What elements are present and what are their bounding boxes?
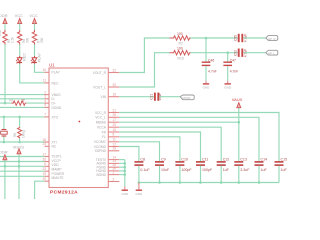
svg-text:MMUTE: MMUTE xyxy=(52,176,65,180)
svg-text:15: 15 xyxy=(113,128,117,132)
svg-text:100pF: 100pF xyxy=(181,168,192,172)
svg-text:6: 6 xyxy=(44,162,46,166)
svg-text:VDOS: VDOS xyxy=(13,145,25,150)
svg-text:17: 17 xyxy=(113,118,117,122)
svg-text:XTO: XTO xyxy=(52,115,59,119)
svg-text:C46: C46 xyxy=(208,58,214,62)
svg-text:R1: R1 xyxy=(10,98,14,102)
svg-text:C10: C10 xyxy=(181,158,188,162)
svg-text:C11: C11 xyxy=(202,158,208,162)
svg-text:11: 11 xyxy=(113,138,117,142)
svg-text:GND: GND xyxy=(136,192,144,196)
svg-text:C13: C13 xyxy=(240,158,247,162)
svg-text:11: 11 xyxy=(43,79,47,83)
svg-text:PCM2912A: PCM2912A xyxy=(50,190,78,196)
svg-text:330: 330 xyxy=(25,37,29,43)
svg-text:10uF: 10uF xyxy=(161,168,170,172)
svg-text:VOUT_R: VOUT_R xyxy=(93,71,107,75)
svg-text:HP_R: HP_R xyxy=(268,37,275,41)
svg-text:5: 5 xyxy=(44,103,46,107)
svg-text:26: 26 xyxy=(42,157,46,161)
svg-text:2: 2 xyxy=(113,177,115,181)
svg-text:1Meg: 1Meg xyxy=(22,130,26,138)
svg-text:DGND: DGND xyxy=(52,106,62,110)
svg-text:REC: REC xyxy=(52,81,60,85)
svg-text:C15: C15 xyxy=(281,158,288,162)
svg-text:C12: C12 xyxy=(223,158,230,162)
svg-text:VCC: VCC xyxy=(29,13,38,18)
svg-text:VCC: VCC xyxy=(15,13,24,18)
svg-text:330: 330 xyxy=(40,37,44,43)
svg-text:22: 22 xyxy=(113,68,117,72)
svg-text:22: 22 xyxy=(21,98,25,102)
svg-text:NC: NC xyxy=(52,145,57,149)
svg-text:8: 8 xyxy=(113,133,115,137)
svg-text:C52: C52 xyxy=(234,50,238,56)
svg-text:4.7nF: 4.7nF xyxy=(208,70,217,74)
svg-text:VCCA: VCCA xyxy=(97,126,107,130)
svg-text:DDR: DDR xyxy=(0,13,8,18)
svg-text:100pF: 100pF xyxy=(202,168,213,172)
svg-text:U1: U1 xyxy=(49,62,55,67)
svg-text:28: 28 xyxy=(113,113,117,117)
svg-text:1: 1 xyxy=(113,170,115,174)
svg-text:SSPND: SSPND xyxy=(95,149,107,153)
svg-text:BGND: BGND xyxy=(96,173,106,177)
svg-text:C47: C47 xyxy=(230,58,236,62)
svg-text:100: 100 xyxy=(177,47,183,51)
svg-text:19: 19 xyxy=(42,172,46,176)
svg-text:MBIAS: MBIAS xyxy=(96,121,107,125)
svg-text:1uF: 1uF xyxy=(223,168,230,172)
svg-text:REC: REC xyxy=(23,53,27,61)
svg-text:VCOMC: VCOMC xyxy=(94,140,107,144)
svg-text:GND: GND xyxy=(224,86,232,90)
svg-text:VCC_R: VCC_R xyxy=(95,111,107,115)
svg-text:PLAY: PLAY xyxy=(52,71,61,75)
svg-text:GND: GND xyxy=(203,86,211,90)
svg-text:C14: C14 xyxy=(261,158,268,162)
svg-text:21: 21 xyxy=(113,108,117,112)
svg-text:VIN: VIN xyxy=(101,95,107,99)
svg-text:1.5k: 1.5k xyxy=(11,37,15,43)
svg-text:3.3uF: 3.3uF xyxy=(240,168,250,172)
svg-text:C21: C21 xyxy=(150,94,154,100)
svg-text:DDR: DDR xyxy=(0,150,8,155)
svg-text:VAUX: VAUX xyxy=(232,97,243,102)
svg-text:R16: R16 xyxy=(178,56,184,60)
svg-text:10: 10 xyxy=(42,68,46,72)
svg-text:VOUT_L: VOUT_L xyxy=(93,85,106,89)
svg-text:R6: R6 xyxy=(13,133,17,137)
svg-text:R2: R2 xyxy=(179,42,183,46)
svg-text:Q1: Q1 xyxy=(0,130,2,134)
svg-text:0.1uF: 0.1uF xyxy=(140,168,150,172)
svg-text:VCC_L: VCC_L xyxy=(95,116,106,120)
svg-text:C55: C55 xyxy=(234,35,238,41)
svg-text:1uF: 1uF xyxy=(261,168,268,172)
svg-text:GND: GND xyxy=(122,192,130,196)
svg-text:29: 29 xyxy=(113,147,117,151)
svg-text:24: 24 xyxy=(42,142,46,146)
svg-text:HP_L: HP_L xyxy=(268,52,275,56)
svg-text:17: 17 xyxy=(42,152,46,156)
svg-text:1.5k: 1.5k xyxy=(0,30,2,36)
svg-text:16: 16 xyxy=(113,93,117,97)
svg-text:C9: C9 xyxy=(161,158,166,162)
svg-text:100: 100 xyxy=(177,32,183,36)
svg-text:C8: C8 xyxy=(140,158,145,162)
svg-text:20: 20 xyxy=(42,177,46,181)
svg-text:FR: FR xyxy=(102,130,107,134)
svg-text:4.7nF: 4.7nF xyxy=(230,70,239,74)
svg-text:MICIN: MICIN xyxy=(183,96,191,100)
svg-text:7: 7 xyxy=(44,113,46,117)
svg-text:25: 25 xyxy=(113,123,117,127)
svg-text:PLAY: PLAY xyxy=(37,52,41,62)
svg-text:23: 23 xyxy=(42,167,46,171)
svg-text:FL: FL xyxy=(102,135,106,139)
svg-text:1uF: 1uF xyxy=(281,168,288,172)
svg-text:20: 20 xyxy=(113,83,117,87)
